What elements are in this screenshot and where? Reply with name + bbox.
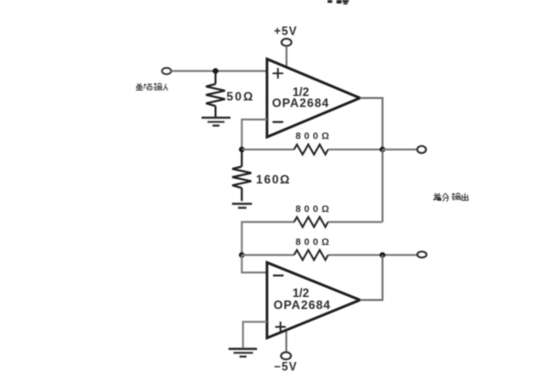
pin - of U1A (273, 121, 284, 123)
svg-text:50Ω: 50Ω (227, 90, 255, 104)
wire cross-coupling net (328, 221, 383, 223)
wire +5V to op-amp (286, 46, 288, 68)
wire output of U1A (360, 98, 383, 150)
输 (452, 193, 461, 200)
op-amp U1B triangle (267, 263, 360, 339)
svg-text:+5V: +5V (274, 26, 297, 38)
wire output net down (382, 150, 384, 223)
label 差分输出 (hand-drawn CJK strokes) (433, 193, 468, 201)
pin + of U1B (275, 322, 286, 333)
node output junction dot top (380, 147, 386, 153)
label 单端输入 (hand-drawn CJK strokes) (136, 83, 168, 91)
svg-text:800Ω: 800Ω (296, 237, 333, 248)
junction input node dot (213, 68, 219, 74)
pin + of U1A (273, 68, 284, 79)
wire output of U1B (360, 255, 383, 300)
node +5V supply terminal (282, 39, 292, 46)
wire to output terminal top (383, 149, 418, 151)
输 (154, 83, 162, 91)
resistor RF2 800 ohm (294, 217, 328, 227)
resistor RF1 800 ohm (294, 145, 328, 155)
label RF (clipped at top edge) (328, 0, 349, 5)
node VO+ terminal (417, 146, 426, 153)
wire feedback net top (242, 149, 294, 151)
op-amp U1A triangle (267, 59, 360, 137)
svg-text:OPA2684: OPA2684 (274, 298, 331, 312)
ground below 160 ohm (232, 204, 252, 208)
差 (433, 193, 441, 200)
svg-text:−5V: −5V (274, 362, 297, 374)
svg-text:800Ω: 800Ω (296, 131, 333, 142)
wire inverting input of U1B (242, 255, 267, 273)
出 (462, 193, 468, 200)
ground below 50 ohm (202, 118, 231, 126)
resistor R term 50 ohm (206, 71, 225, 117)
svg-text:OPA2684: OPA2684 (272, 96, 329, 110)
node VIN input terminal (162, 68, 171, 74)
wire input to noninverting input (171, 70, 267, 72)
resistor RG 160 ohm (232, 150, 251, 202)
wire noninverting input of U1B to ground (243, 322, 267, 348)
端 (144, 84, 152, 91)
resistor RF3 800 ohm (294, 250, 328, 260)
wire -5V to op-amp (285, 332, 287, 353)
node -5V supply terminal (281, 352, 291, 359)
wire feedback net bottom (242, 254, 294, 256)
node feedback junction dot left (239, 147, 245, 153)
svg-text:800Ω: 800Ω (296, 204, 333, 215)
node output junction dot bottom (380, 252, 386, 258)
入 (163, 84, 168, 91)
svg-text:160Ω: 160Ω (256, 173, 291, 187)
pin - of U1B (273, 275, 284, 277)
wire inverting input of U1A (242, 120, 267, 150)
node inverting junction dot bottom (239, 252, 245, 258)
单 (136, 84, 143, 91)
ground at U1B input (229, 349, 258, 357)
分 (442, 193, 448, 201)
node VO- terminal (417, 252, 426, 258)
